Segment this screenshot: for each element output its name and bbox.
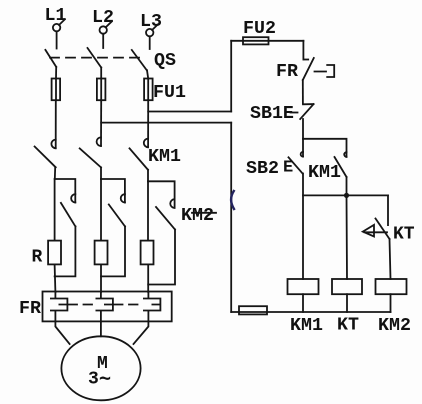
button SB1 NC contact — [300, 104, 313, 119]
contactor KM2 contact 3 — [156, 199, 175, 229]
contactor KM1 main contact 3 — [130, 139, 149, 170]
svg-text:3∼: 3∼ — [88, 369, 111, 392]
svg-text:SB2: SB2 — [246, 159, 279, 179]
contactor KM1 main contact 2 — [80, 137, 101, 167]
fuse FU1 pole 3 — [144, 79, 153, 101]
terminal L3 — [146, 24, 158, 36]
KM1 aux hook — [344, 152, 346, 157]
svg-text:L2: L2 — [92, 8, 114, 28]
wire SB1 down — [302, 119, 304, 139]
wire branch split phase 2 — [101, 179, 125, 203]
wire tap L3 to control rail — [148, 111, 231, 113]
svg-text:KM1: KM1 — [290, 316, 323, 336]
bottom rail — [231, 311, 390, 313]
FR heater linkage dashed — [69, 304, 96, 306]
svg-text:KT: KT — [337, 316, 359, 336]
svg-text:KM1: KM1 — [308, 163, 341, 183]
wire KT to KM2 coil — [390, 239, 391, 279]
coil KM1 — [288, 279, 319, 294]
resistor R phase 1 — [48, 241, 61, 265]
svg-text:FR: FR — [276, 62, 298, 82]
stray blue mark on rail — [231, 191, 234, 209]
wire FU1-2 to KM1-2 — [100, 100, 102, 146]
wire KM2-2 bypass down — [101, 226, 125, 276]
svg-text:KM2: KM2 — [378, 316, 411, 336]
wire KT branch down — [387, 195, 389, 225]
wire main phase 3 through R — [147, 181, 149, 240]
wire QS1 to FU1-1 — [55, 67, 57, 79]
wire KM1 aux down to junction — [346, 177, 348, 195]
switch QS pole 2 — [88, 48, 102, 68]
wire L1 to QS — [56, 31, 58, 48]
svg-text:KM1: KM1 — [148, 147, 181, 167]
wire FU1-1 to KM1-1 — [55, 100, 57, 148]
wire main phase 1 through R — [54, 179, 56, 241]
junction dot — [344, 193, 349, 198]
wire FR contact to SB1 — [302, 80, 304, 104]
wire branch split phase 1 — [55, 179, 76, 203]
svg-text:E: E — [283, 159, 293, 178]
fuse FU2 — [231, 37, 303, 44]
wire FR to motor right — [134, 321, 149, 344]
fuse FU1 pole 1 — [52, 79, 61, 101]
resistor R phase 2 — [95, 241, 108, 265]
FR heater 3 — [144, 292, 161, 321]
control left rail lower segment — [230, 123, 232, 312]
wire main phase 2 through R — [100, 179, 102, 241]
svg-text:KM2: KM2 — [181, 206, 214, 226]
coil KM2 — [376, 279, 407, 294]
button SB2 upper terminal — [302, 139, 304, 157]
resistor R phase 3 — [141, 241, 154, 265]
wire branch split phase 3 — [148, 181, 175, 208]
contactor KM2 contact 1 — [61, 194, 76, 226]
KT delay arrow — [363, 225, 387, 237]
terminal L1 — [53, 19, 65, 31]
wire R1 down to FR — [54, 264, 57, 292]
wire R2 down to FR — [100, 264, 102, 292]
KM2 label strike mark — [192, 212, 216, 214]
wire junction to KT coil — [346, 195, 349, 279]
wire horizontal to KT branch — [303, 194, 388, 196]
wire KM2 coil to rail — [390, 294, 392, 312]
wire KM1-1 down — [54, 167, 56, 179]
svg-text:FU1: FU1 — [153, 83, 186, 103]
SB1 actuator dash — [291, 112, 298, 114]
wire KM2-3 bypass down — [148, 230, 175, 285]
wire L3 to QS — [149, 36, 151, 49]
wire FU1-3 to KM1-3 — [147, 100, 149, 147]
FR heater 2 — [96, 292, 113, 321]
wire L2 to QS — [102, 34, 104, 48]
bottom fuse — [239, 306, 267, 314]
switch QS pole 1 — [45, 50, 56, 67]
svg-text:L1: L1 — [45, 6, 67, 26]
svg-text:R: R — [32, 248, 43, 268]
svg-text:SB1E: SB1E — [250, 104, 294, 124]
wire branch to KM1 aux — [303, 139, 347, 157]
wire KM1-2 down — [100, 167, 102, 179]
QS linkage dashed line — [50, 57, 146, 59]
fuse FU1 pole 2 — [97, 79, 106, 101]
control left rail upper segment — [230, 41, 232, 112]
wire SB2 down to KM1 coil — [302, 174, 304, 280]
wire QS3 to FU1-3 — [147, 70, 148, 78]
FR heater 1 — [51, 292, 68, 321]
wire KM1-3 down — [147, 170, 149, 182]
button SB2 NO contact blade — [289, 157, 303, 173]
wire KT coil to rail — [346, 294, 348, 312]
FR NC contact — [303, 58, 314, 80]
wire KM2-1 bypass down — [55, 226, 76, 276]
wire QS2 to FU1-2 — [100, 68, 102, 79]
wire FR to motor left — [55, 321, 69, 344]
wire FR to motor middle — [100, 321, 102, 336]
KT delay contact blade — [376, 219, 390, 240]
contactor KM2 contact 2 — [109, 194, 125, 226]
svg-text:FU2: FU2 — [243, 19, 276, 39]
coil KT — [332, 279, 362, 294]
svg-text:KT: KT — [393, 225, 415, 245]
thermal relay FR box — [43, 292, 172, 322]
terminal L2 — [100, 22, 112, 34]
wire KM1 coil to rail — [302, 294, 304, 312]
FR actuator symbol — [315, 65, 335, 77]
contactor KM1 main contact 1 — [35, 140, 56, 168]
wire FU2 down to FR contact — [302, 41, 304, 60]
svg-text:FR: FR — [19, 299, 41, 319]
switch QS pole 3 — [132, 50, 147, 70]
svg-text:QS: QS — [154, 51, 176, 71]
wire R3 down to FR — [147, 264, 149, 292]
motor M — [61, 336, 140, 400]
contactor KM1 aux contact blade — [335, 157, 347, 177]
SB2 hook — [301, 152, 303, 157]
wire tap L2 to control rail — [101, 122, 231, 124]
